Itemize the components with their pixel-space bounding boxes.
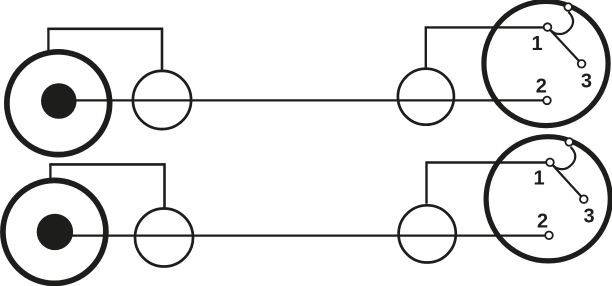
jumper arc: X1 pin1 to case tab — [551, 12, 573, 34]
svg-text:3: 3 — [581, 71, 592, 93]
svg-text:1: 1 — [533, 167, 544, 189]
RCA plug P2 center pin (filled dot) — [37, 214, 73, 250]
wire: P1 shell up — [47, 29, 49, 51]
jumper: X2 pin1 to pin3 — [550, 162, 584, 199]
wire: shield run to XLR row2 — [427, 163, 551, 204]
plug body circle B2 — [398, 69, 454, 125]
RCA plug P1 shell (outer ring) — [7, 52, 110, 155]
RCA plug P1 center pin (filled dot) — [41, 83, 77, 119]
X1 pin 3 — [578, 60, 586, 68]
svg-text:3: 3 — [583, 206, 594, 228]
plug body circle B4 — [399, 205, 456, 262]
plug body circle B3 — [135, 209, 193, 267]
wire: shield top run row1 — [47, 29, 162, 70]
XLR connector X2 shell (outer ring) — [486, 137, 610, 261]
X1 case ground tab — [564, 3, 572, 11]
X2 pin 1 — [546, 159, 554, 167]
X2 pin 2 — [545, 232, 553, 240]
wire: shield run to XLR row1 — [426, 27, 548, 67]
X2 pin 3 — [580, 195, 588, 203]
svg-text:2: 2 — [536, 76, 547, 98]
wire: shield top run row2 — [49, 164, 164, 207]
wire: signal conductor row2 (P2 pin to XLR pin 2) — [55, 235, 549, 237]
plug body circle B1 — [133, 71, 191, 129]
XLR connector X1 shell (outer ring) — [484, 1, 608, 125]
svg-text:2: 2 — [537, 210, 548, 232]
svg-text:1: 1 — [531, 33, 542, 55]
X1 pin 1 — [544, 23, 552, 31]
jumper arc: X2 pin1 to case tab — [554, 147, 576, 169]
X1 pin 2 — [543, 97, 551, 105]
wire: signal conductor row1 (P1 pin to XLR pin 2) — [59, 99, 547, 101]
X2 case ground tab — [565, 138, 573, 146]
wire: P2 shell up — [49, 164, 51, 178]
RCA plug P2 shell (outer ring) — [3, 180, 106, 283]
jumper: X1 pin1 to pin3 — [548, 27, 582, 64]
